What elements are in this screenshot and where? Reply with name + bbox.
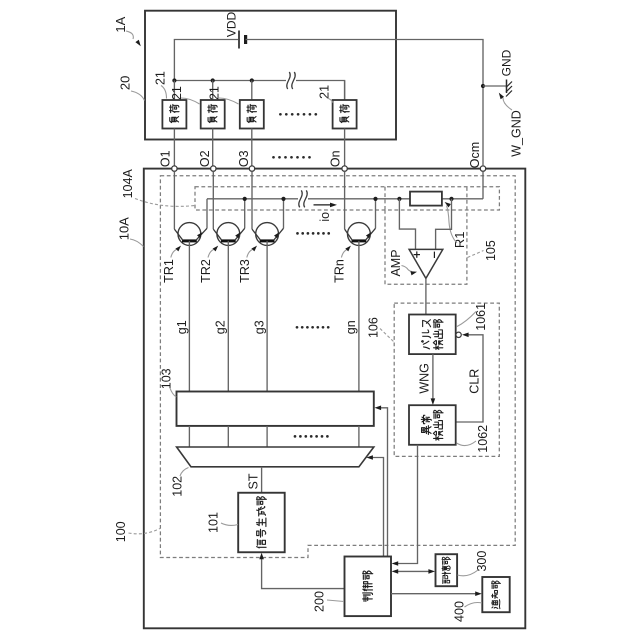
- node load1: [172, 78, 176, 82]
- node load3: [250, 78, 254, 82]
- inverter bubble CLR input: [456, 332, 461, 337]
- wire AMP output: [425, 278, 427, 314]
- block 200 controller: [345, 557, 392, 617]
- label R1: [445, 202, 467, 248]
- wire CLR: [456, 333, 483, 423]
- label 400: [453, 601, 482, 622]
- label 100: [114, 521, 160, 542]
- svg-text:AMP: AMP: [389, 249, 403, 276]
- wire WNG: [431, 354, 436, 405]
- load block 21 #1 (fuka): [162, 100, 186, 129]
- wire AMP + input: [399, 199, 415, 249]
- wire emitter bus: [207, 198, 298, 200]
- dots between g3 and gn: [296, 326, 330, 329]
- node emitter TR3: [281, 197, 285, 201]
- node W_GND junction: [481, 84, 485, 88]
- node On terminal: [342, 166, 347, 171]
- wire VDD feed: [174, 40, 238, 81]
- label 1061: [457, 303, 488, 331]
- label 104A: [121, 169, 194, 207]
- block 400 notifier: [482, 577, 509, 612]
- box 10A (semiconductor device): [144, 169, 526, 629]
- node R1 right: [449, 197, 453, 201]
- io current arrow: [314, 203, 338, 208]
- svg-text:1A: 1A: [113, 16, 128, 32]
- svg-text:1061: 1061: [474, 303, 488, 331]
- svg-text:102: 102: [171, 476, 185, 497]
- node O2 terminal: [211, 166, 216, 171]
- label TR1: [162, 246, 181, 283]
- wires 103 to 102: [188, 426, 190, 447]
- box 20 (load group enclosure): [145, 11, 396, 140]
- block 101 signal generation: [238, 493, 285, 553]
- label 21 #1: [154, 71, 168, 98]
- svg-text:1062: 1062: [476, 425, 490, 453]
- transistor TR3: [252, 171, 284, 391]
- label TR3: [238, 246, 257, 283]
- resistor R1: [410, 192, 442, 206]
- wire 103 input from controller: [375, 406, 388, 557]
- node Ocm terminal: [480, 166, 485, 171]
- svg-text:GND: GND: [500, 49, 514, 76]
- node emitter TR2: [243, 197, 247, 201]
- svg-text:105: 105: [484, 240, 498, 261]
- label AMP: [389, 249, 417, 276]
- load block 21 #2 (fuka): [201, 100, 225, 129]
- dashed box 105 (current detection): [385, 187, 467, 284]
- label 105: [468, 240, 499, 261]
- node load2: [211, 78, 215, 82]
- wire VDD to GND node: [246, 40, 483, 87]
- svg-text:g3: g3: [252, 320, 266, 334]
- label 21 #2: [170, 86, 200, 104]
- wire load 2 bottom lead: [212, 129, 214, 167]
- wire AMP - input: [436, 199, 452, 249]
- transistor TRn: [345, 171, 376, 391]
- svg-text:TRn: TRn: [332, 259, 346, 283]
- wire load 3 bottom lead: [251, 129, 253, 167]
- dots between loads: [279, 113, 317, 116]
- svg-text:ST: ST: [247, 473, 261, 489]
- label 1062: [457, 425, 491, 453]
- wire to ground: [483, 85, 507, 87]
- load block 21 #4 (fuka): [333, 100, 357, 129]
- wire 102 input from controller: [366, 455, 383, 556]
- break symbol on load bus: [287, 72, 295, 89]
- wire controller to notifier: [391, 591, 482, 596]
- svg-text:TR3: TR3: [238, 259, 252, 283]
- svg-text:TR1: TR1: [162, 259, 176, 283]
- label 106: [367, 317, 394, 341]
- block 300 memory: [436, 554, 458, 586]
- load block 21 #3 (fuka): [240, 100, 264, 129]
- svg-text:200: 200: [313, 591, 327, 612]
- block 1062 anomaly detection: [409, 405, 456, 445]
- label W_GND: [499, 93, 524, 157]
- svg-text:WNG: WNG: [417, 363, 431, 394]
- label TR2: [199, 246, 218, 283]
- wire load 4 top lead: [344, 81, 346, 101]
- dashed box 106 (detection circuit): [394, 303, 499, 456]
- node emitter TRn: [373, 197, 377, 201]
- svg-text:21: 21: [317, 85, 331, 99]
- label 21 #3: [208, 86, 239, 104]
- dots between TR3 and TRn: [296, 232, 330, 235]
- wire Ocm lead: [482, 88, 484, 166]
- svg-text:Ocm: Ocm: [468, 142, 482, 168]
- svg-text:300: 300: [475, 551, 489, 572]
- transistor TR1: [174, 171, 207, 391]
- svg-text:400: 400: [453, 601, 467, 622]
- dashed box 100 (detection apparatus): [160, 176, 515, 558]
- label 103: [160, 368, 177, 397]
- svg-text:W_GND: W_GND: [509, 110, 523, 157]
- transistor TR2: [213, 171, 244, 391]
- label 300: [458, 551, 489, 576]
- label 102: [171, 468, 189, 497]
- svg-text:103: 103: [160, 368, 174, 389]
- wire load 1 top lead: [173, 81, 175, 101]
- battery VDD: [239, 31, 246, 49]
- wire load 4 bottom lead: [344, 129, 346, 167]
- svg-text:101: 101: [207, 512, 221, 533]
- svg-text:gn: gn: [344, 320, 358, 334]
- svg-text:10A: 10A: [117, 217, 132, 240]
- svg-text:O2: O2: [198, 150, 212, 167]
- svg-text:104A: 104A: [121, 169, 135, 199]
- label 21 #4: [317, 85, 332, 103]
- op-amp AMP: [409, 249, 443, 278]
- wire 101 feed from controller: [259, 553, 344, 589]
- svg-text:O3: O3: [237, 150, 251, 167]
- svg-text:CLR: CLR: [468, 369, 482, 394]
- node O3 terminal: [249, 166, 254, 171]
- dots between 103 and 102: [294, 435, 329, 438]
- block 1061 pulse detection: [409, 315, 456, 355]
- dots between O3 and On: [272, 156, 311, 159]
- svg-text:O1: O1: [159, 150, 173, 167]
- svg-text:g1: g1: [175, 320, 189, 334]
- wire load 1 bottom lead: [173, 129, 175, 167]
- svg-text:21: 21: [154, 71, 168, 85]
- svg-text:VDD: VDD: [225, 12, 239, 38]
- trapezoid 102 selector: [177, 447, 374, 467]
- label 1A: [113, 16, 141, 46]
- wire load bus: [174, 80, 286, 82]
- svg-text:TR2: TR2: [199, 259, 213, 283]
- wire load 2 top lead: [212, 81, 214, 101]
- svg-text:io: io: [318, 212, 332, 222]
- ground GND symbol: [506, 80, 512, 97]
- dashed box 104A (wiring): [195, 187, 499, 210]
- block 103 gate driver: [177, 392, 374, 426]
- label TRn: [332, 246, 351, 283]
- label 101: [207, 512, 239, 533]
- svg-text:g2: g2: [214, 320, 228, 334]
- wire controller-memory bidirectional: [392, 569, 435, 574]
- node R1 left: [397, 197, 401, 201]
- wire ST: [261, 467, 263, 493]
- label 20: [118, 76, 145, 101]
- svg-text:100: 100: [114, 521, 128, 542]
- svg-text:20: 20: [118, 76, 133, 90]
- wire 1062 to controller: [392, 445, 418, 566]
- wire load 3 top lead: [251, 81, 253, 101]
- label 10A: [117, 217, 144, 247]
- node O1 terminal: [172, 166, 177, 171]
- label 200: [313, 591, 345, 612]
- break symbol on emitter bus: [299, 190, 307, 207]
- svg-text:106: 106: [367, 317, 381, 338]
- svg-text:On: On: [329, 150, 343, 167]
